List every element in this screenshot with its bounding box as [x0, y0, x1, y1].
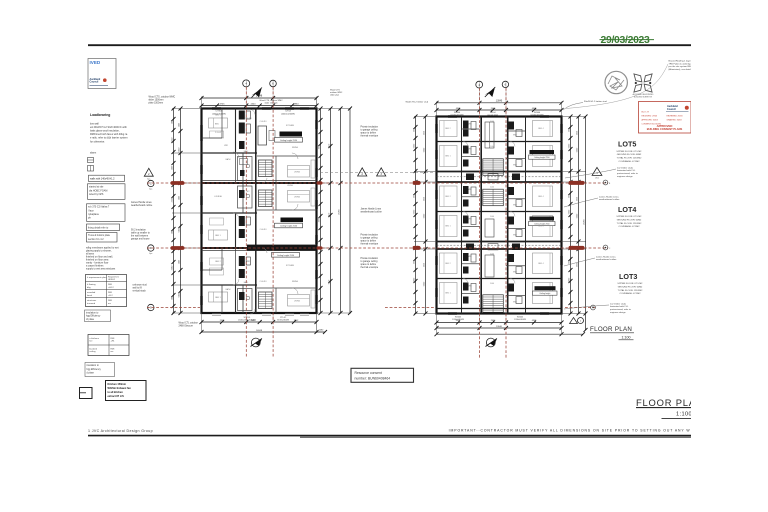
smoke alarm symbols	[88, 158, 94, 172]
note timber stud left gap top	[406, 100, 429, 103]
svg-text:engineer design: engineer design	[610, 311, 626, 314]
svg-text:(Aluminium), see detail: (Aluminium), see detail	[669, 68, 692, 71]
note james hardie left	[131, 201, 153, 207]
svg-text:KITCHEN: KITCHEN	[286, 265, 295, 267]
svg-text:FLOOR PLAN: FLOOR PLAN	[590, 326, 632, 333]
svg-text:+H1.2: +H1.2	[108, 287, 114, 289]
right plan bottom window labels	[452, 317, 526, 322]
received stamp box	[88, 59, 116, 89]
gap grid triangle 2	[358, 168, 367, 176]
svg-text:GRANTED: 30/03: GRANTED: 30/03	[667, 119, 682, 122]
svg-text:BED 1: BED 1	[215, 235, 220, 237]
svg-text:James Hardie Linea: James Hardie Linea	[596, 255, 616, 258]
svg-text:IVED: IVED	[90, 60, 101, 65]
svg-text:nykaplane: nykaplane	[88, 213, 100, 216]
right plan band 4 right room	[533, 216, 553, 237]
svg-text:thermal envelope: thermal envelope	[361, 243, 379, 246]
svg-text:unknown stud: unknown stud	[133, 283, 148, 286]
svg-text:CL44: CL44	[490, 216, 494, 218]
floor plan subtitle right plan	[590, 326, 634, 340]
right plan right dim line 2	[577, 115, 581, 316]
svg-text:APPROVED: APPROVED	[657, 124, 673, 128]
left plan interior extra partitions	[202, 109, 236, 314]
svg-text:LIVING: LIVING	[294, 171, 301, 173]
svg-text:R2B lined both faces with 40kg: R2B lined both faces with 40kg ra	[90, 133, 128, 136]
svg-text:1 JVC Architectural Design Gro: 1 JVC Architectural Design Group	[88, 429, 153, 433]
svg-text:20260: 20260	[583, 218, 585, 224]
small boxed note insulation	[85, 310, 111, 322]
left plan right dim line 2	[329, 107, 333, 316]
left plan top dim line 1	[200, 96, 319, 100]
svg-text:CL44: CL44	[490, 187, 494, 189]
svg-text:weatherboard cutline: weatherboard cutline	[599, 198, 620, 201]
svg-text:3030: 3030	[413, 260, 415, 264]
right plan band 5 right room	[533, 253, 553, 274]
svg-text:3030: 3030	[576, 131, 578, 135]
left plan window marks	[200, 107, 317, 315]
right plan stairs lot3	[483, 295, 504, 313]
svg-text:weatherboard cutline: weatherboard cutline	[131, 204, 153, 207]
red centreline H2	[147, 247, 608, 249]
right plan interior verticals	[462, 117, 526, 314]
svg-text:3030: 3030	[423, 131, 425, 135]
LOT5 lvl note	[617, 166, 639, 178]
left plan right dim line 4	[348, 107, 352, 316]
svg-text:CL4.413: CL4.413	[260, 121, 267, 123]
floor plan main title	[636, 397, 703, 418]
svg-text:29/03/2023: 29/03/2023	[601, 35, 651, 46]
svg-text:LOT4: LOT4	[618, 205, 636, 214]
svg-text:e rails, refer to d&b barrier: e rails, refer to d&b barrier system	[90, 137, 128, 140]
left grid triangle 2	[144, 168, 153, 180]
leader james hardie right 2	[564, 258, 595, 266]
svg-text:TOTAL FLOOR: 128.5M2: TOTAL FLOOR: 128.5M2	[618, 289, 643, 292]
section dashed line	[320, 172, 434, 174]
svg-text:hgg Efficiency: hgg Efficiency	[87, 369, 102, 371]
svg-text:LOT5: LOT5	[618, 140, 636, 149]
right plan bottom dim line 2	[435, 326, 564, 330]
svg-text:KITCHEN: KITCHEN	[286, 125, 295, 127]
svg-text:e kitchens: e kitchens	[90, 337, 99, 340]
svg-text:to garage ceiling: to garage ceiling	[361, 237, 379, 240]
svg-text:alarm: alarm	[90, 152, 96, 155]
right plan band 5 fixtures	[462, 253, 526, 274]
svg-text:Ceiling height 2550: Ceiling height 2550	[277, 254, 295, 257]
resource consent box	[351, 368, 414, 382]
svg-text:ceiling: ceiling	[90, 351, 97, 353]
round monogram stamp	[605, 71, 627, 93]
svg-text:BED 4: BED 4	[538, 196, 543, 198]
leader lot5 lvl note	[565, 169, 616, 178]
svg-text:2440: 2440	[171, 230, 173, 234]
svg-text:dia HOBC FOAM: dia HOBC FOAM	[89, 189, 107, 192]
svg-text:BED 1: BED 1	[215, 115, 220, 117]
svg-text:1x2 timber studs: 1x2 timber studs	[617, 166, 634, 169]
svg-text:1x2 timber studs: 1x2 timber studs	[610, 302, 627, 305]
svg-text:BED 1: BED 1	[445, 156, 450, 158]
left plan unit2 fixtures	[238, 186, 253, 238]
left plan top extension lines	[202, 80, 317, 109]
svg-text:Ceiling height: Ceiling height	[539, 292, 550, 295]
svg-text:LIVING: LIVING	[294, 300, 301, 302]
svg-text:ext 90x45 H1.2 SG8 400C/C with: ext 90x45 H1.2 SG8 400C/C with	[90, 126, 127, 129]
svg-text:weatherboard cutline: weatherboard cutline	[361, 211, 383, 214]
red centreline V2 right plan	[505, 88, 507, 358]
svg-text:CL44: CL44	[490, 146, 494, 148]
left plan right rotated dims	[318, 143, 340, 284]
svg-text:1:100: 1:100	[622, 335, 631, 339]
svg-text:CL44: CL44	[490, 283, 494, 285]
left plan party wall 2	[202, 248, 317, 250]
svg-text:space to define: space to define	[361, 240, 377, 243]
pinwheel certifier stamp	[633, 74, 654, 99]
svg-text:weatherboard cutline: weatherboard cutline	[596, 258, 617, 261]
svg-text:BED: BED	[215, 124, 220, 126]
svg-text:BATH: BATH	[226, 288, 231, 291]
svg-text:Wood CTS, outdoor WMC: Wood CTS, outdoor WMC	[149, 96, 176, 99]
requirements table part 2	[88, 335, 129, 356]
svg-text:section 9.1.4.2: section 9.1.4.2	[88, 238, 104, 241]
svg-text:Resource consent: Resource consent	[355, 371, 382, 375]
svg-text:bustend: bustend	[90, 347, 98, 350]
right plan band 3 fixtures	[462, 186, 526, 207]
left plan left rotated dims	[171, 137, 180, 297]
svg-text:6pa: 6pa	[149, 253, 152, 255]
underlined label note	[89, 175, 125, 181]
svg-text:4864: 4864	[294, 103, 300, 105]
left plan unit1 kitchen bar	[258, 126, 302, 145]
red centreline H1 end bubble	[603, 180, 611, 185]
svg-text:CL4.413: CL4.413	[245, 118, 252, 120]
svg-text:LOT3: LOT3	[619, 272, 637, 281]
svg-text:space to define: space to define	[361, 263, 377, 266]
svg-text:slider plan: slider plan	[330, 95, 339, 97]
left grid bubble C	[148, 180, 154, 190]
right plan deck strips	[437, 177, 562, 245]
right plan band 4 left room	[440, 216, 458, 237]
right plan extra rotated dims	[413, 128, 578, 267]
right plan label bar 2	[529, 217, 556, 226]
svg-text:for otherwise.: for otherwise.	[90, 140, 105, 143]
svg-text:number: BUN60408464: number: BUN60408464	[355, 376, 391, 380]
svg-text:insulation to: insulation to	[86, 311, 99, 314]
right plan deck strip fixtures	[466, 174, 520, 251]
right plan label bar 1	[529, 150, 556, 159]
left plan unit1 living	[288, 160, 316, 178]
right plan top extension lines	[437, 81, 562, 117]
red centreline H1	[147, 182, 608, 184]
right plan band 2 fixtures	[462, 146, 526, 167]
left plan unit3 ceiling label	[272, 253, 300, 258]
red centreline H3	[147, 307, 596, 309]
left plan unit2 ceiling label	[275, 223, 303, 228]
left plan unit2 living	[288, 188, 316, 206]
red centreline V1 left plan	[245, 87, 247, 358]
svg-text:Ceiling height 2550: Ceiling height 2550	[280, 139, 298, 142]
left plan unit1 wardrobe fixtures	[239, 111, 251, 150]
svg-text:to all kitchen: to all kitchen	[108, 391, 124, 394]
svg-text:90x45 H1.2 timber stud: 90x45 H1.2 timber stud	[584, 100, 607, 103]
svg-text:3030: 3030	[568, 194, 570, 198]
svg-text:started at site: started at site	[89, 186, 104, 189]
right plan band 3 right room	[533, 186, 553, 207]
note timber stud right plan top	[563, 100, 607, 110]
svg-text:extract 87 L/S: extract 87 L/S	[108, 395, 125, 398]
svg-text:CL4.413: CL4.413	[260, 281, 267, 283]
top border line	[88, 44, 692, 46]
svg-text:ms: ms	[108, 303, 111, 305]
right plan room micro labels	[468, 121, 517, 304]
left plan unit1 bath	[238, 157, 253, 181]
svg-text:batts glass wool insulation,: batts glass wool insulation,	[90, 130, 120, 133]
svg-text:UPPER FLOOR: 67.5 M2: UPPER FLOOR: 67.5 M2	[617, 216, 643, 218]
note alarm	[90, 152, 96, 155]
svg-text:GROUND FLOOR: 60M2: GROUND FLOOR: 60M2	[617, 219, 642, 221]
gap grid triangle 3	[377, 168, 386, 176]
note unknown stud left	[133, 283, 148, 292]
svg-text:laminated with LVL: laminated with LVL	[617, 169, 636, 172]
svg-text:1200x2400W: 1200x2400W	[514, 319, 526, 321]
note private insulation gap low	[361, 257, 379, 269]
right plan top window labels	[450, 112, 543, 117]
right plan stairs lot4	[483, 189, 504, 206]
left plan top window labels	[212, 99, 295, 115]
left plan unit2 stairs	[259, 190, 273, 207]
svg-text:BED 2: BED 2	[445, 128, 450, 130]
svg-text:James Hardie Linea: James Hardie Linea	[361, 208, 382, 211]
svg-text:(2440x1200W): (2440x1200W)	[281, 113, 295, 115]
boxed note 4	[87, 233, 118, 243]
right plan right extension lines	[562, 117, 587, 314]
svg-text:plate 1500mm: plate 1500mm	[149, 102, 164, 105]
red centreline H2 end bubble	[603, 245, 611, 250]
svg-text:BED 4: BED 4	[538, 263, 543, 265]
left plan right dim line 3	[339, 107, 343, 316]
svg-text:2440: 2440	[171, 120, 173, 124]
right plan right dim line 3	[584, 115, 588, 333]
svg-text:BED 1: BED 1	[445, 226, 450, 228]
right plan grid bubble B	[502, 81, 508, 87]
right plan interior horizontals	[437, 142, 562, 309]
right plan top dim line 2	[435, 108, 564, 112]
right plan label bar 3	[533, 286, 558, 295]
svg-text:h requirements plan: h requirements plan	[87, 276, 107, 279]
right plan bottom dim line 3	[435, 332, 586, 336]
svg-text:thermal envelope: thermal envelope	[361, 266, 379, 269]
svg-text:James Hardie Linea: James Hardie Linea	[599, 195, 619, 198]
svg-text:low wall: low wall	[90, 123, 99, 126]
LOT3 label	[619, 272, 637, 281]
svg-text:outdoor WMC: outdoor WMC	[330, 91, 343, 94]
note braced roofing top right	[669, 60, 699, 71]
svg-text:BUILDING SURVEYOR: BUILDING SURVEYOR	[634, 97, 653, 99]
approved consent red box	[639, 102, 692, 134]
note private insulation gap mid	[361, 234, 379, 246]
LOT4 area text	[617, 216, 643, 228]
svg-text:RECEIVED: 29/03: RECEIVED: 29/03	[642, 116, 657, 118]
svg-text:Ceiling height 2550: Ceiling height 2550	[280, 225, 298, 228]
note loadbearing header	[90, 113, 110, 117]
right plan bottom grid bubble	[570, 318, 584, 324]
svg-text:Private insulation: Private insulation	[361, 126, 379, 129]
svg-text:fixing detail refer to: fixing detail refer to	[88, 226, 109, 229]
svg-text:TOTAL FLOOR: 128.5M2: TOTAL FLOOR: 128.5M2	[617, 157, 642, 160]
leader braced roofing	[566, 64, 668, 109]
svg-text:ms: ms	[111, 351, 114, 353]
svg-text:3030: 3030	[423, 197, 425, 201]
svg-text:d plase: d plase	[87, 372, 95, 374]
left grid bubble D	[148, 245, 154, 255]
left plan party wall 1	[202, 181, 317, 183]
left plan unit3 partitions	[202, 248, 317, 313]
svg-text:wired by NZS: wired by NZS	[89, 193, 104, 196]
left plan grid bubble B	[270, 80, 277, 87]
svg-text:Ceiling height 2550: Ceiling height 2550	[534, 156, 549, 159]
left plan unit3 dark band	[247, 245, 317, 251]
svg-text:BED 2: BED 2	[215, 261, 220, 263]
svg-text:Council: Council	[90, 81, 99, 84]
left plan left extension lines	[172, 109, 202, 314]
svg-text:G: G	[150, 307, 152, 310]
left plan unit1 ceiling label	[275, 138, 303, 143]
svg-text:LIVING: LIVING	[287, 185, 293, 187]
left plan unit3 living	[288, 290, 316, 308]
note wood cts top left	[149, 96, 176, 105]
right plan band 6 left room	[440, 283, 458, 304]
svg-text:BED 1: BED 1	[445, 293, 450, 295]
left plan top dim line 2	[200, 103, 319, 107]
left plan outer wall	[202, 109, 317, 314]
svg-text:2488 Obscure: 2488 Obscure	[179, 324, 194, 327]
svg-text:IMPORTANT--CONTRACTOR MUST VER: IMPORTANT--CONTRACTOR MUST VERIFY ALL DI…	[449, 428, 691, 432]
wet area paragraph	[86, 246, 119, 270]
note james hardie gap	[361, 208, 383, 214]
note right of left plan top	[330, 90, 343, 97]
svg-text:slider 1500mm: slider 1500mm	[149, 99, 164, 102]
red centreline V1 right plan	[479, 88, 481, 358]
left plan bottom extension lines	[202, 313, 317, 333]
svg-text:14848: 14848	[256, 330, 263, 332]
left plan extra rotated dims	[171, 120, 180, 300]
svg-text:Kitchen 150mm: Kitchen 150mm	[108, 383, 127, 386]
svg-text:13040: 13040	[496, 326, 503, 328]
svg-text:2440: 2440	[171, 296, 173, 300]
right plan band 6 fixtures	[462, 283, 526, 304]
date stamp 29/03/2023	[600, 35, 655, 46]
right plan door arcs	[463, 142, 515, 284]
svg-text:engineer design: engineer design	[617, 175, 633, 178]
svg-text:UPPER FLOOR: 67.5 M2: UPPER FLOOR: 67.5 M2	[617, 151, 643, 153]
svg-text:BED 2: BED 2	[445, 196, 450, 198]
svg-text:CL44: CL44	[490, 254, 494, 256]
right plan window marks	[435, 115, 562, 314]
disclaimer text	[449, 428, 691, 432]
svg-text:TOTAL FLOOR: 128.5M2: TOTAL FLOOR: 128.5M2	[617, 222, 642, 225]
svg-text:laminated with LVL: laminated with LVL	[610, 305, 629, 308]
note james hardie right 1	[599, 195, 620, 201]
svg-text:3030: 3030	[568, 128, 570, 132]
svg-text:CL4.413: CL4.413	[260, 229, 267, 231]
svg-text:BATH: BATH	[226, 158, 231, 161]
svg-text:hgg Efficiency: hgg Efficiency	[86, 316, 101, 318]
right plan left dim line 1	[414, 115, 418, 316]
svg-text:BED 2: BED 2	[445, 263, 450, 265]
LOT5 area text	[617, 151, 643, 163]
svg-text:2440: 2440	[251, 103, 257, 105]
left plan unit2 bed	[209, 218, 228, 240]
left edge bracket box	[80, 388, 93, 399]
svg-text:6pa: 6pa	[149, 189, 152, 191]
svg-text:table up smaller to: table up smaller to	[131, 231, 150, 234]
right plan band 1 right room	[533, 121, 553, 137]
svg-text:DINING: DINING	[292, 281, 299, 283]
left plan room micro labels	[214, 115, 299, 300]
red centreline H1 markers	[171, 181, 585, 185]
note wood ctl bottom left	[179, 321, 199, 327]
jvc footer text	[88, 429, 153, 433]
svg-text:3030: 3030	[413, 194, 415, 198]
svg-text:3030: 3030	[576, 263, 578, 267]
svg-text:LIVING: LIVING	[294, 196, 301, 198]
svg-text:LOUNGE: LOUNGE	[214, 196, 222, 198]
right plan right dim line 1	[569, 115, 573, 316]
svg-text:3030: 3030	[576, 197, 578, 201]
leader lot3 lvl note	[564, 305, 609, 309]
right plan band 5 left room	[440, 253, 458, 274]
svg-text:2440: 2440	[178, 123, 180, 127]
svg-text:LEVEL2: LEVEL2	[108, 279, 115, 281]
svg-text:BCO: 29: BCO: 29	[642, 112, 649, 114]
svg-text:BUILDING CONSENT PLANS: BUILDING CONSENT PLANS	[647, 127, 683, 131]
svg-text:walls with 140x45 H1.2: walls with 140x45 H1.2	[90, 178, 115, 181]
svg-text:2.7x3.2: 2.7x3.2	[215, 132, 221, 134]
right plan left rotated dims	[413, 143, 425, 286]
note james hardie right 2	[596, 255, 617, 261]
svg-text:to garage ceiling: to garage ceiling	[361, 129, 379, 132]
left plan unit3 bed	[209, 258, 228, 302]
red centreline V2 left plan	[272, 87, 274, 358]
kitchen extract bold box	[106, 381, 147, 401]
note loadbearing paragraph	[90, 123, 128, 144]
svg-text:CL44: CL44	[490, 121, 494, 123]
left plan north arrow top	[252, 88, 263, 98]
requirements table	[86, 275, 127, 307]
svg-text:90x45 H1.2 timber stud: 90x45 H1.2 timber stud	[406, 100, 429, 103]
svg-text:COVERAGE: 47.5M2: COVERAGE: 47.5M2	[619, 160, 641, 163]
svg-text:3030: 3030	[413, 128, 415, 132]
right plan band 3 left room	[440, 186, 458, 207]
svg-text:4745: 4745	[220, 103, 226, 105]
svg-text:GROUND FLOOR: 60M2: GROUND FLOOR: 60M2	[617, 154, 642, 156]
svg-text:larval: larval	[87, 294, 93, 297]
svg-text:2440: 2440	[178, 196, 180, 200]
left plan bottom dim line 2	[200, 330, 328, 334]
svg-text:structures: structures	[87, 299, 96, 302]
LOT5 warning triangle	[592, 167, 602, 179]
svg-text:unroofed: unroofed	[87, 291, 96, 294]
svg-text:trusseed: trusseed	[87, 302, 96, 305]
svg-text:COVERAGE: 47.5M2: COVERAGE: 47.5M2	[620, 292, 642, 295]
svg-text:2440: 2440	[178, 260, 180, 264]
red centreline H3 end bubble	[591, 305, 596, 310]
small boxed note 2	[85, 363, 115, 377]
right plan right rotated dims	[568, 143, 585, 282]
left plan bottom north arrow	[251, 338, 263, 347]
right plan bottom north arrow	[486, 338, 498, 347]
red centreline H2 markers	[171, 246, 585, 250]
right plan band 1 fixtures	[462, 121, 526, 137]
svg-text:Wh/Sin Exhaust fan: Wh/Sin Exhaust fan	[108, 387, 132, 390]
